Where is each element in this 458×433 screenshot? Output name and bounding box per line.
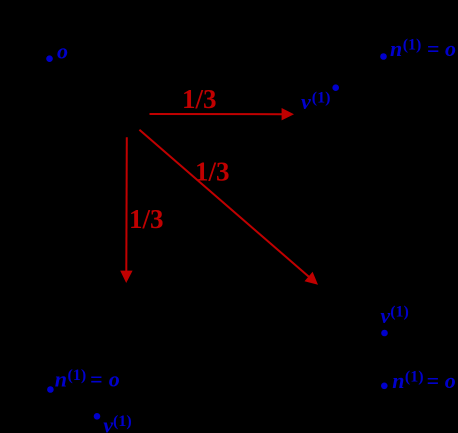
svg-text:1/3: 1/3 bbox=[182, 84, 217, 114]
svg-text:(1): (1) bbox=[113, 413, 132, 430]
svg-text:n: n bbox=[392, 368, 404, 393]
svg-text:o: o bbox=[109, 367, 120, 392]
svg-text:1/3: 1/3 bbox=[195, 157, 230, 187]
svg-text:n: n bbox=[55, 367, 67, 392]
svg-text:(1): (1) bbox=[68, 367, 87, 384]
svg-text:v: v bbox=[380, 303, 390, 328]
svg-text:o: o bbox=[445, 36, 456, 61]
svg-text:o: o bbox=[57, 39, 68, 64]
svg-text:o: o bbox=[445, 368, 456, 393]
svg-text:(1): (1) bbox=[405, 369, 424, 386]
svg-text:=: = bbox=[427, 36, 440, 61]
svg-text:=: = bbox=[427, 368, 440, 393]
svg-text:n: n bbox=[390, 36, 402, 61]
svg-text:=: = bbox=[90, 367, 103, 392]
svg-text:(1): (1) bbox=[390, 304, 409, 321]
svg-text:v: v bbox=[301, 89, 311, 114]
svg-text:v: v bbox=[103, 412, 113, 433]
svg-text:1/3: 1/3 bbox=[129, 204, 164, 234]
svg-text:(1): (1) bbox=[403, 37, 422, 54]
svg-text:(1): (1) bbox=[312, 89, 331, 106]
